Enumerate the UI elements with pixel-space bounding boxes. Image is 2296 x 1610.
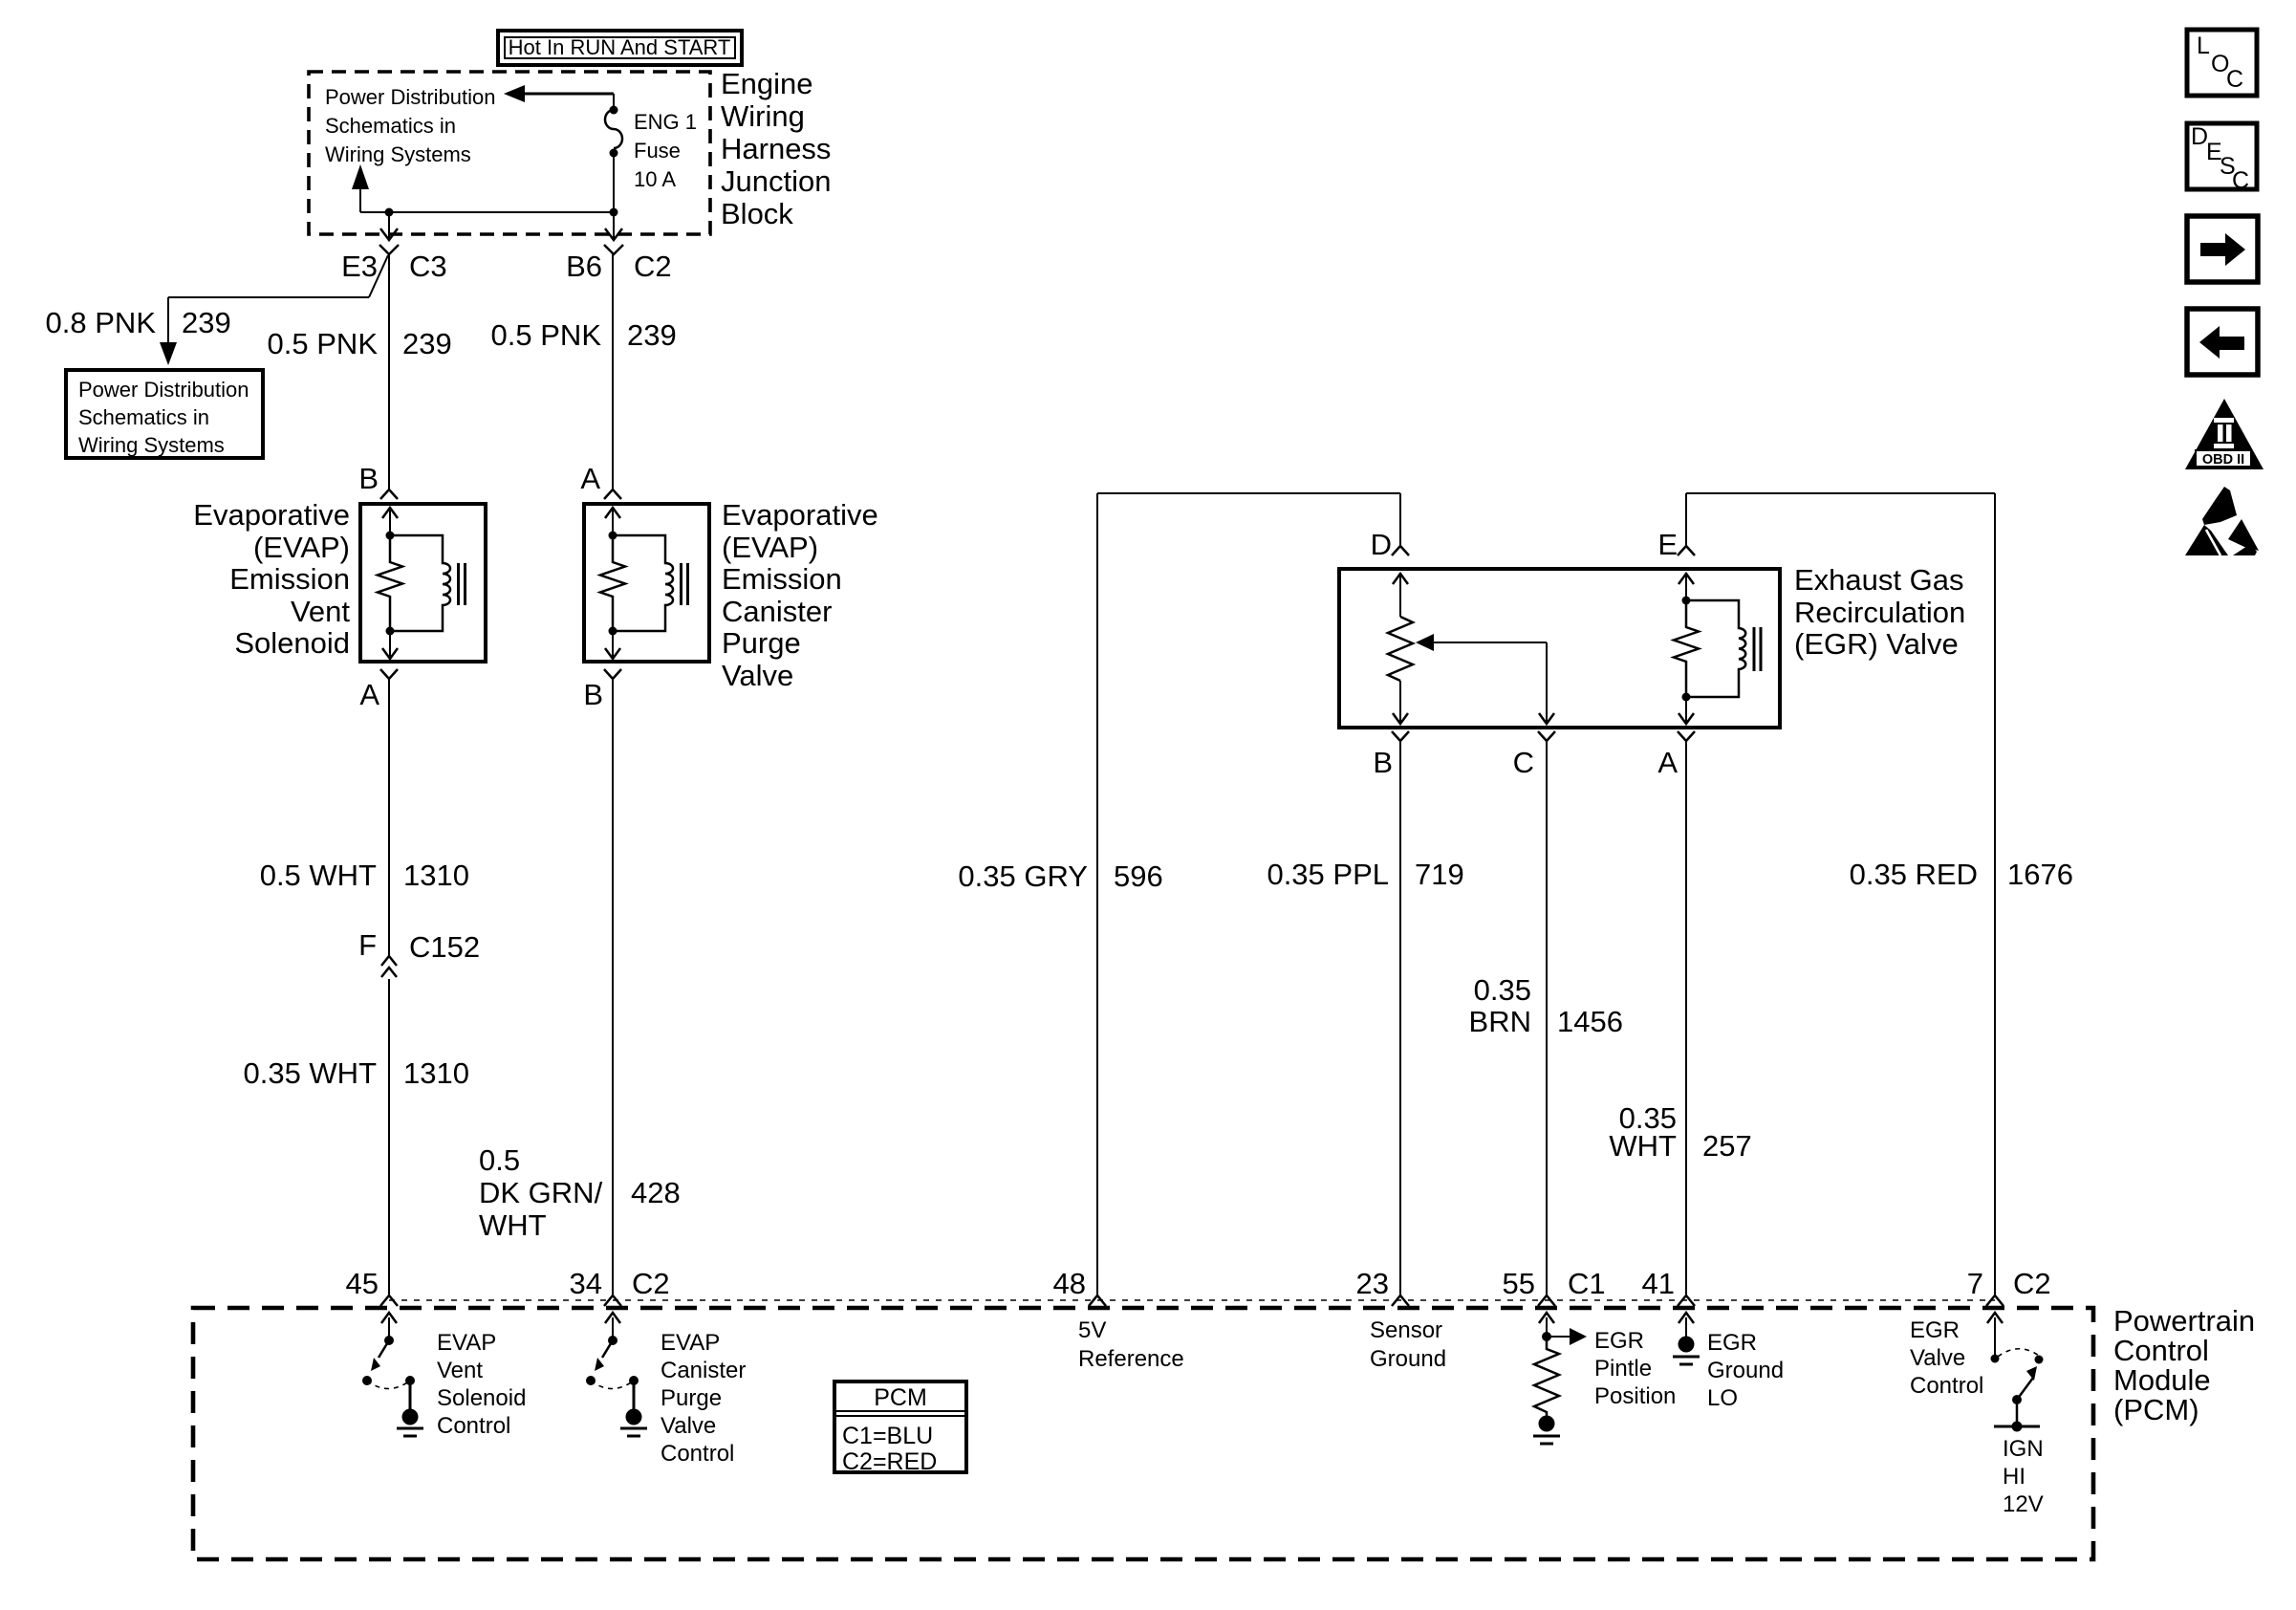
svg-text:23: 23	[1356, 1267, 1389, 1300]
svg-text:C3: C3	[409, 250, 447, 283]
connector face thin dashed line	[389, 1299, 1995, 1301]
wiper arrow of potentiometer	[1416, 634, 1434, 651]
svg-text:1310: 1310	[403, 859, 469, 892]
svg-text:D: D	[1371, 528, 1392, 561]
svg-text:C: C	[1513, 746, 1534, 779]
icon: forward arrow box	[2187, 216, 2258, 282]
node: switch pivot	[2012, 1395, 2022, 1404]
wire: pin 7 internal with up arrow	[1994, 1317, 1996, 1359]
svg-text:C2: C2	[634, 250, 672, 283]
label: EVAP Vent Solenoid Control	[437, 1330, 526, 1439]
PCM internal: EGR valve control switch to IGN HI 12V	[1987, 1313, 2044, 1432]
svg-text:Solenoid: Solenoid	[437, 1385, 526, 1411]
svg-text:Powertrain: Powertrain	[2113, 1304, 2255, 1338]
wire: 0.35 GRY 596 (5V reference vertical)	[1096, 493, 1098, 1295]
node: fuse top	[610, 106, 618, 115]
wire: 0.35 RED 1676 (EGR valve control vertical)	[1994, 493, 1996, 1295]
wire: vent solenoid internal bottom with down arrow	[389, 631, 391, 660]
wire: 0.35 PPL 719 (sensor ground)	[1399, 741, 1401, 1295]
svg-text:596: 596	[1114, 859, 1163, 893]
core bars: EGR solenoid	[1754, 627, 1761, 671]
connector chevron at PCM pin 48	[1089, 1295, 1106, 1306]
svg-text:E: E	[1657, 528, 1678, 561]
svg-text:C1=BLU: C1=BLU	[842, 1423, 933, 1449]
node: fuse bottom	[610, 149, 618, 158]
arrowhead down open at B6 exit	[605, 228, 622, 240]
wire: 0.5 PNK 239 wire1 (C3 to EVAP vent solenoid B)	[388, 254, 390, 490]
svg-text:Solenoid: Solenoid	[234, 626, 350, 660]
svg-text:Ground: Ground	[1370, 1346, 1446, 1372]
wire: fuse feed to Power Distribution arrow	[525, 93, 614, 96]
svg-text:1676: 1676	[2007, 858, 2073, 891]
svg-text:0.35 RED: 0.35 RED	[1850, 858, 1978, 891]
resistor: pintle input pull-down	[1534, 1337, 1559, 1416]
svg-text:ENG 1: ENG 1	[634, 110, 697, 134]
svg-text:Hot In RUN And START: Hot In RUN And START	[509, 35, 731, 59]
svg-text:Valve: Valve	[661, 1413, 716, 1439]
svg-text:Wiring: Wiring	[721, 99, 805, 133]
icon: ESD warning triangle	[2185, 487, 2259, 555]
label: IGN HI 12V	[2003, 1436, 2044, 1517]
label: Evaporative (EVAP) Emission Canister Purge Valve	[722, 498, 878, 692]
icon: back arrow box	[2187, 309, 2258, 375]
svg-text:0.5 WHT: 0.5 WHT	[260, 859, 377, 892]
svg-text:0.5: 0.5	[479, 1143, 520, 1177]
wire: EGR D drop	[1399, 493, 1401, 546]
node: switch output contact	[1991, 1355, 2000, 1363]
svg-text:F: F	[358, 928, 377, 962]
ground (EGR ground LO)	[1679, 1337, 1695, 1353]
svg-text:Harness: Harness	[721, 132, 831, 165]
label: 0.5 DK GRN/ WHT	[479, 1143, 603, 1242]
svg-text:(EVAP): (EVAP)	[722, 531, 818, 564]
svg-text:EGR: EGR	[1594, 1328, 1644, 1354]
wire: ground post	[409, 1381, 412, 1409]
wire: horizontal bus in junction block	[360, 211, 614, 213]
svg-text:L: L	[2197, 33, 2210, 59]
wire: pin 34 internal with up arrow	[612, 1317, 614, 1340]
svg-text:34: 34	[570, 1267, 602, 1300]
node: EGR coil bottom	[1682, 693, 1691, 702]
PCM internal: EVAP canister purge valve control driver	[586, 1313, 647, 1436]
solenoid: EGR valve coil branch up arrow	[1685, 574, 1687, 600]
svg-text:(EVAP): (EVAP)	[253, 531, 350, 564]
svg-text:45: 45	[346, 1267, 379, 1300]
node: switch throw contact	[362, 1376, 372, 1385]
svg-text:PCM: PCM	[874, 1384, 927, 1411]
label: Engine Wiring Harness Junction Block	[721, 67, 831, 230]
wire: up branch to power distribution	[359, 187, 361, 212]
switch lever (vent solenoid driver)	[379, 1340, 389, 1358]
arrow: input tap to EGR Pintle Position	[1547, 1336, 1573, 1338]
node: purge valve coil bottom	[609, 627, 617, 636]
component: Evaporative (EVAP) Emission Vent Solenoid box	[360, 504, 486, 662]
svg-text:0.35: 0.35	[1474, 973, 1531, 1007]
svg-text:IGN: IGN	[2003, 1436, 2044, 1462]
resistor: EGR solenoid winding resistance	[1674, 600, 1699, 697]
svg-text:B6: B6	[566, 250, 602, 283]
wire: ground post	[633, 1381, 636, 1409]
svg-text:Control: Control	[661, 1441, 734, 1467]
node: switch throw contact	[586, 1376, 596, 1385]
svg-text:Wiring Systems: Wiring Systems	[325, 142, 471, 166]
icon: LOC box	[2187, 30, 2257, 96]
svg-text:A: A	[580, 462, 600, 495]
svg-text:B: B	[358, 462, 379, 495]
connector chevron below purge valve pin B	[604, 669, 621, 679]
coil: purge valve inductor	[613, 535, 673, 631]
node: vent solenoid coil bottom	[386, 627, 395, 636]
svg-text:Block: Block	[721, 197, 793, 230]
node: bus / wire2 junction	[610, 208, 618, 217]
wire: EGR solenoid bottom with down arrow	[1685, 697, 1687, 724]
arrowhead down (to Power Distribution box)	[160, 342, 177, 365]
svg-text:719: 719	[1415, 858, 1464, 891]
label: 0.35 BRN	[1469, 973, 1531, 1038]
svg-text:WHT: WHT	[479, 1208, 547, 1242]
svg-text:239: 239	[402, 327, 452, 360]
resistor: vent solenoid winding resistance	[378, 535, 402, 631]
svg-text:239: 239	[627, 318, 677, 352]
label: Evaporative (EVAP) Emission Vent Solenoid	[193, 498, 350, 660]
svg-text:41: 41	[1642, 1267, 1675, 1300]
node: switch throw contact	[2035, 1356, 2044, 1364]
svg-text:C2: C2	[2013, 1267, 2051, 1300]
switch lever (purge valve driver)	[602, 1340, 613, 1358]
node: pintle input junction	[1542, 1332, 1551, 1341]
svg-text:C: C	[2226, 66, 2243, 93]
connector chevron at EGR pin A	[1678, 731, 1695, 741]
wire: pin 41 internal with up arrow	[1685, 1317, 1687, 1337]
wire: 5V reference top horizontal	[1097, 492, 1400, 494]
wire: fuse bottom to bus	[613, 153, 615, 212]
label: ENG 1 Fuse 10 A	[634, 110, 697, 191]
svg-text:12V: 12V	[2003, 1491, 2044, 1517]
svg-text:Power Distribution: Power Distribution	[78, 378, 249, 402]
wire: 0.35 WHT 1310 segment	[388, 979, 390, 1295]
wire: 0.5 WHT 1310 segment	[388, 679, 390, 956]
svg-text:0.5 PNK: 0.5 PNK	[268, 327, 379, 360]
wire: pin 55 internal with up arrow	[1546, 1317, 1548, 1337]
svg-text:B: B	[583, 678, 603, 711]
wire: wiper to pin C with down arrow	[1546, 642, 1548, 724]
connector C152 inline chevrons	[381, 956, 397, 977]
component: Exhaust Gas Recirculation (EGR) Valve box	[1339, 569, 1780, 728]
svg-text:Purge: Purge	[722, 626, 801, 660]
wire: fuse top lead	[613, 94, 615, 110]
wire: pin 45 internal with up arrow	[388, 1317, 390, 1340]
wire: 0.35 WHT 257 (EGR ground LO)	[1685, 741, 1687, 1295]
dashed throw arc	[591, 1381, 634, 1389]
svg-text:Power Distribution: Power Distribution	[325, 85, 496, 109]
box: Hot In RUN And START	[498, 31, 742, 65]
ground (purge valve driver)	[626, 1409, 642, 1425]
arrowhead up (power distribution branch)	[352, 164, 369, 189]
svg-text:HI: HI	[2003, 1464, 2025, 1490]
svg-text:Emission: Emission	[722, 562, 842, 596]
label: Sensor Ground	[1370, 1317, 1446, 1372]
svg-text:Emission: Emission	[229, 562, 350, 596]
connector chevron at PCM pin 41	[1678, 1295, 1695, 1306]
svg-text:0.8 PNK: 0.8 PNK	[46, 306, 157, 339]
label: Exhaust Gas Recirculation (EGR) Valve	[1794, 563, 1965, 661]
arrowhead left (to Power Distribution)	[504, 85, 525, 102]
svg-text:0.35 GRY: 0.35 GRY	[958, 859, 1088, 893]
label: EGR Ground LO	[1707, 1330, 1784, 1411]
svg-text:Exhaust Gas: Exhaust Gas	[1794, 563, 1963, 597]
svg-text:Wiring Systems: Wiring Systems	[78, 433, 225, 457]
svg-text:0.35 PPL: 0.35 PPL	[1267, 858, 1389, 891]
svg-text:55: 55	[1503, 1267, 1535, 1300]
svg-text:EGR: EGR	[1707, 1330, 1757, 1356]
box: Power Distribution Schematics in Wiring Systems	[66, 370, 263, 458]
svg-text:5V: 5V	[1078, 1317, 1106, 1343]
wire: B6 exit drop	[613, 212, 615, 240]
node: ground post top	[405, 1376, 415, 1385]
wire: EGR E drop	[1685, 493, 1687, 546]
arrowhead down open at E3 exit	[380, 228, 398, 240]
label: Power Distribution Schematics in Wiring Systems (inside junction block)	[325, 85, 496, 166]
core bars: purge valve	[682, 563, 688, 605]
wire: E3 exit drop	[388, 212, 390, 240]
svg-text:Vent: Vent	[437, 1358, 483, 1383]
connector chevron at PCM pin 34	[604, 1295, 621, 1306]
svg-text:Canister: Canister	[722, 595, 832, 628]
svg-text:Schematics in: Schematics in	[78, 405, 209, 429]
svg-text:(EGR) Valve: (EGR) Valve	[1794, 627, 1959, 661]
svg-text:Engine: Engine	[721, 67, 813, 100]
ground (pintle input)	[1539, 1416, 1555, 1432]
svg-text:BRN: BRN	[1469, 1005, 1531, 1038]
svg-text:Control: Control	[437, 1413, 510, 1439]
connector chevron at EGR pin D	[1392, 546, 1409, 555]
PCM internal: EVAP vent solenoid control driver	[362, 1313, 423, 1436]
wire: 0.8 PNK branch horizontal	[168, 296, 369, 298]
Engine Wiring Harness Junction Block dashed box	[309, 72, 710, 234]
svg-text:Fuse: Fuse	[634, 139, 681, 163]
connector C3 chevron	[379, 245, 399, 254]
connector chevron at EGR pin B	[1392, 731, 1409, 741]
svg-text:48: 48	[1053, 1267, 1086, 1300]
node: purge valve coil top	[609, 532, 617, 540]
svg-text:WHT: WHT	[1609, 1129, 1677, 1163]
Powertrain Control Module (PCM) dashed box	[193, 1308, 2093, 1559]
svg-text:C152: C152	[409, 930, 480, 964]
wire: 0.35 BRN 1456 (EGR pintle position)	[1546, 741, 1548, 1295]
svg-text:EVAP: EVAP	[661, 1330, 720, 1356]
svg-text:Control: Control	[1910, 1373, 1983, 1399]
label: 0.35 WHT	[1609, 1101, 1677, 1163]
wire: 0.5 DK GRN/WHT 428	[612, 679, 614, 1295]
svg-text:Sensor: Sensor	[1370, 1317, 1442, 1343]
node: bus / wire1 junction	[385, 208, 394, 217]
svg-text:Vent: Vent	[291, 595, 350, 628]
svg-text:Canister: Canister	[661, 1358, 746, 1383]
PCM internal: EGR ground LO	[1673, 1313, 1700, 1364]
svg-text:Valve: Valve	[722, 659, 793, 692]
icon: DESC box	[2187, 123, 2257, 194]
node: vent solenoid coil top	[386, 532, 395, 540]
svg-text:Purge: Purge	[661, 1385, 722, 1411]
connector chevron at PCM pin 55	[1538, 1295, 1555, 1306]
node: switch common (pin 45 driver)	[384, 1336, 394, 1345]
label: EGR Valve Control	[1910, 1317, 1983, 1399]
svg-text:Evaporative: Evaporative	[722, 498, 878, 532]
label: Powertrain Control Module (PCM)	[2113, 1304, 2255, 1426]
svg-text:C: C	[2232, 167, 2249, 194]
PCM internal: EGR pintle position input	[1533, 1313, 1587, 1444]
connector chevron at EGR pin C	[1538, 731, 1555, 741]
wire: 0.8 PNK branch diagonal	[369, 255, 388, 297]
svg-text:Schematics in: Schematics in	[325, 114, 456, 138]
svg-text:10 A: 10 A	[634, 167, 676, 191]
wire: pivot to IGN rail	[2016, 1400, 2019, 1426]
svg-text:Position: Position	[1594, 1383, 1676, 1409]
svg-text:428: 428	[631, 1176, 681, 1209]
component: Evaporative (EVAP) Emission Canister Purge Valve box	[584, 504, 709, 662]
wire: purge valve internal top with up arrow	[612, 508, 614, 535]
wire: 0.5 PNK 239 wire2 (C2 to EVAP purge valve A)	[612, 254, 614, 490]
svg-text:Recirculation: Recirculation	[1794, 596, 1965, 629]
coil: EGR solenoid inductor	[1686, 600, 1745, 697]
ground (vent solenoid driver)	[402, 1409, 419, 1425]
svg-text:Junction: Junction	[721, 164, 831, 198]
core bars: vent solenoid	[459, 563, 466, 605]
svg-text:0.5 PNK: 0.5 PNK	[491, 318, 602, 352]
potentiometer: EGR pintle position sensor element	[1399, 574, 1401, 617]
coil: vent solenoid inductor	[390, 535, 450, 631]
connector chevron at PCM pin 7	[1986, 1295, 2004, 1306]
svg-text:B: B	[1373, 746, 1393, 779]
svg-text:A: A	[1657, 746, 1678, 779]
power rail: IGN HI 12V	[1994, 1425, 2040, 1428]
fuse ENG 1 10 A	[605, 110, 622, 148]
svg-text:C1: C1	[1568, 1267, 1606, 1300]
connector chevron at PCM pin 23	[1392, 1295, 1409, 1306]
connector chevron at EGR pin E	[1678, 546, 1695, 555]
connector chevron at PCM pin 45	[380, 1295, 398, 1306]
svg-text:EGR: EGR	[1910, 1317, 1960, 1343]
label: EGR Pintle Position	[1594, 1328, 1676, 1409]
svg-text:C2=RED: C2=RED	[842, 1448, 937, 1475]
svg-text:EVAP: EVAP	[437, 1330, 496, 1356]
svg-text:239: 239	[182, 306, 231, 339]
connector chevron below vent solenoid pin A	[380, 669, 398, 679]
svg-text:Control: Control	[2113, 1334, 2209, 1367]
connector chevron at EVAP purge valve pin A	[604, 490, 621, 499]
dashed throw arc	[1998, 1349, 2039, 1357]
svg-text:OBD II: OBD II	[2202, 452, 2244, 468]
label: EVAP Canister Purge Valve Control	[661, 1330, 746, 1467]
wire: 0.8 PNK branch drop	[167, 297, 169, 344]
svg-text:Reference: Reference	[1078, 1346, 1184, 1372]
svg-text:(PCM): (PCM)	[2113, 1393, 2199, 1426]
svg-text:LO: LO	[1707, 1385, 1738, 1411]
svg-text:1456: 1456	[1557, 1005, 1623, 1038]
svg-text:Ground: Ground	[1707, 1358, 1784, 1383]
legend box: PCM connectors	[834, 1382, 966, 1475]
resistor: purge valve winding resistance	[600, 535, 625, 631]
svg-text:Module: Module	[2113, 1363, 2211, 1397]
svg-text:1310: 1310	[403, 1056, 469, 1090]
label: 5V Reference	[1078, 1317, 1184, 1372]
svg-text:Evaporative: Evaporative	[193, 498, 350, 532]
svg-text:C2: C2	[632, 1267, 670, 1300]
svg-text:257: 257	[1702, 1129, 1752, 1163]
svg-text:Pintle: Pintle	[1594, 1356, 1652, 1382]
svg-text:A: A	[359, 678, 379, 711]
node: switch common (pin 34 driver)	[608, 1336, 617, 1345]
switch lever (EGR valve control driver)	[2017, 1378, 2033, 1400]
icon: OBD II triangle	[2185, 399, 2264, 469]
connector chevron at EVAP vent solenoid pin B	[380, 490, 398, 499]
svg-text:DK GRN/: DK GRN/	[479, 1176, 603, 1209]
svg-text:0.35 WHT: 0.35 WHT	[243, 1056, 377, 1090]
wire: purge valve internal bottom with down arrow	[612, 631, 614, 660]
node: ground post top	[629, 1376, 639, 1385]
connector C2 chevron	[604, 245, 623, 254]
wire: EGR valve control top horizontal	[1686, 492, 1995, 494]
svg-text:7: 7	[1967, 1267, 1983, 1300]
node: EGR coil top	[1682, 597, 1691, 605]
svg-text:E3: E3	[341, 250, 378, 283]
wire: vent solenoid internal top with up arrow	[389, 508, 391, 535]
dashed throw arc	[367, 1381, 410, 1389]
svg-text:Valve: Valve	[1910, 1345, 1965, 1371]
